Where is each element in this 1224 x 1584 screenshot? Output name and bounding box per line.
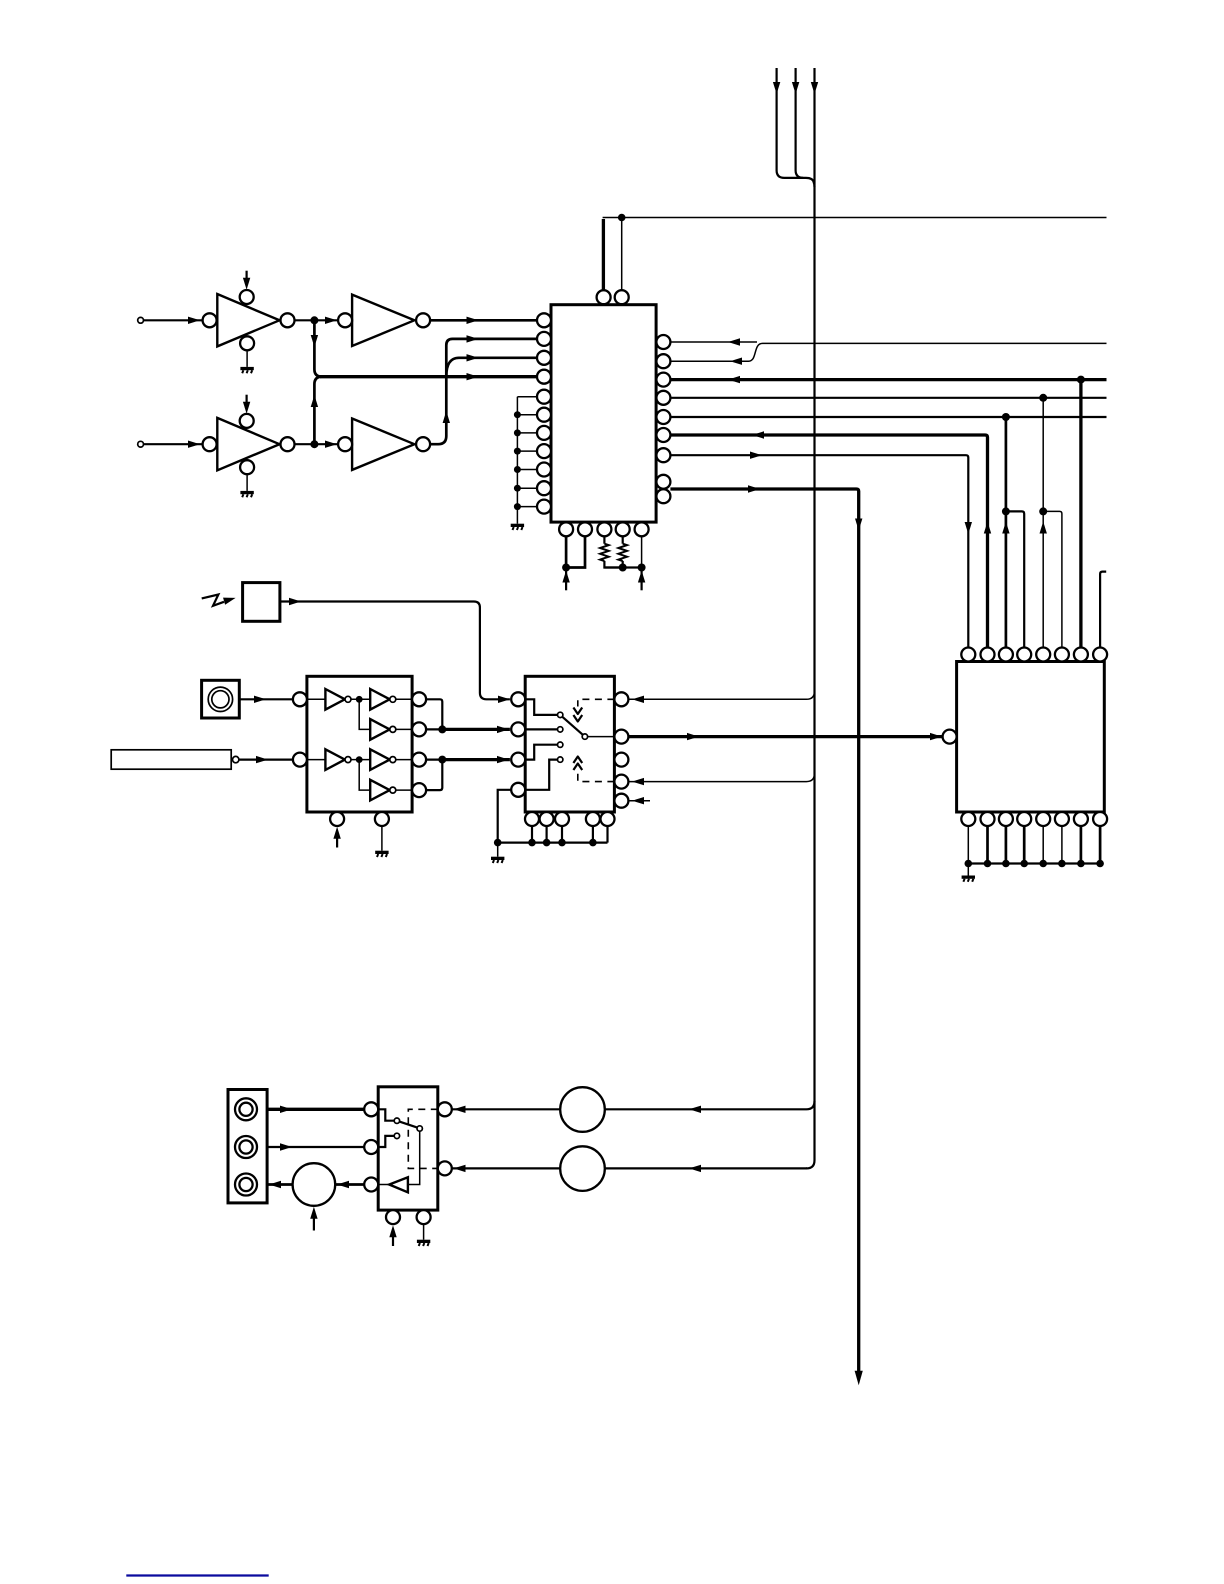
node: pin5 power junction bbox=[638, 564, 646, 572]
node: A3 output junction bbox=[310, 440, 318, 448]
node: U2 ground bus junctions bbox=[965, 860, 1104, 868]
node: row3 junction bbox=[1077, 376, 1085, 384]
wire: U1 right row1 bbox=[670, 338, 757, 345]
wire: U4 output to IC U2 bbox=[628, 733, 942, 740]
amp A5 left pointing bbox=[378, 1177, 408, 1192]
wire: A1 output to amp A2 with junction bbox=[295, 317, 339, 324]
IC U1 bottom pins bbox=[559, 522, 649, 536]
IC U2 bottom pins bbox=[961, 812, 1107, 826]
dashed control link upper bbox=[573, 699, 614, 721]
coil T1 bbox=[560, 1087, 605, 1132]
wire: U3 outputs pair B join bbox=[426, 760, 442, 791]
connector P2 flat cable bbox=[111, 750, 239, 769]
wire: row4 feed down to U2 pin5 and branch pin6 bbox=[1040, 398, 1062, 648]
wire: U5 power pin arrow bbox=[389, 1225, 396, 1246]
remote sensor wave symbol bbox=[202, 594, 237, 605]
IC U1 right pins bbox=[656, 335, 670, 503]
IC U3 bottom pins bbox=[330, 812, 389, 826]
input terminal CH2 bbox=[138, 441, 144, 447]
wire: branch from riser to IC1 pin3 bbox=[446, 354, 537, 376]
IC U1 top pins bbox=[597, 290, 629, 304]
remote sensor box bbox=[243, 583, 280, 622]
wire: sensor output to switch box U4 bbox=[280, 598, 510, 703]
IC U4 left pins bbox=[511, 692, 525, 797]
wire: control arrow into A3 top pin bbox=[243, 395, 250, 414]
IC U2 driver box bbox=[957, 662, 1105, 813]
node: resistor junction bbox=[619, 564, 627, 572]
wire: S1 common to output pin bbox=[588, 736, 615, 738]
resistor R1 bbox=[600, 536, 623, 567]
wire: pair B to switch U4 bbox=[442, 756, 510, 763]
IC U3 inverter array box bbox=[307, 676, 412, 812]
buffer amp A3 bbox=[203, 414, 295, 474]
IC U2 left pin bbox=[943, 730, 957, 744]
wire: main vertical bus line from top bbox=[806, 68, 818, 1168]
IC U4 bottom pins bbox=[525, 812, 615, 826]
node: pin1 power junction bbox=[562, 564, 570, 572]
wire: J1 ring to amp U5 bbox=[267, 1143, 364, 1150]
ground below A1 bbox=[240, 350, 253, 373]
IC U5 mute amp box bbox=[378, 1087, 438, 1210]
coil T2 bbox=[560, 1146, 605, 1191]
IC U3 left pins bbox=[293, 692, 307, 766]
wire: U1 row7 to IC U2 pin1 bbox=[670, 452, 972, 648]
IC U4 function switch box bbox=[525, 676, 614, 812]
headphone jack block J1 bbox=[228, 1090, 267, 1203]
inverter U3E bbox=[370, 749, 412, 770]
input terminal CH1 bbox=[138, 317, 144, 323]
IC U1 left pins bbox=[537, 313, 551, 513]
wire: U3 power pin arrow bbox=[333, 827, 340, 848]
amp A2 bbox=[338, 295, 430, 346]
wire: S2 common to amp input bbox=[408, 1131, 420, 1184]
node: ground bus junctions bbox=[514, 411, 521, 510]
inverter U3C bbox=[359, 699, 412, 739]
inverter U3A bbox=[307, 689, 370, 710]
wire: U4 pin R4 to main bus bbox=[628, 773, 814, 785]
wire: horizontal net to IC1 top pins bbox=[603, 218, 1107, 291]
switch S1 arm bbox=[562, 717, 583, 735]
wire: U1 right row4 bbox=[670, 397, 1106, 399]
dashed control link lower bbox=[573, 757, 614, 782]
IC U3 right pins bbox=[412, 692, 426, 797]
node: U3A output junction bbox=[356, 696, 363, 703]
ground below A3 bbox=[240, 474, 253, 497]
IC U5 right pins bbox=[438, 1102, 452, 1175]
wire: A3 output to amp A4 with junction bbox=[295, 441, 339, 448]
wire: supply line 1 entering from top with down arrow bbox=[773, 68, 806, 178]
wire: A2 output to IC1 pin1 bbox=[430, 317, 537, 324]
node: branch junction pin3 bbox=[1002, 507, 1010, 515]
ground below U1 left bus bbox=[511, 524, 524, 530]
node: ground bus junctions U4 bbox=[494, 839, 597, 847]
node: branch junction pin5 bbox=[1039, 507, 1047, 515]
wire: U5 to motor M1 bbox=[335, 1181, 364, 1188]
wire: U3 outputs pair A join bbox=[426, 699, 442, 729]
ground below U5 bbox=[417, 1224, 430, 1246]
node: pair B junction bbox=[438, 756, 446, 764]
amp A4 bbox=[338, 419, 430, 470]
wire: U1 row8 long feed down the page bbox=[670, 485, 862, 1385]
wire: junction down to thick net (CH1 direct) bbox=[311, 322, 322, 377]
wire: A4 output riser to IC1 pin2 bbox=[430, 335, 537, 444]
wire: bus line with jog to U1 row2 bbox=[670, 343, 1106, 365]
switch S2 inside U5 bbox=[378, 1109, 422, 1147]
wire: CH2 input to buffer A3 bbox=[144, 441, 203, 448]
wire: thick net to IC1 pin4 bbox=[320, 373, 537, 380]
ground below U3 bbox=[375, 826, 388, 857]
wire: row3 feed down to U2 pin7 bbox=[1079, 380, 1082, 648]
wire: U1 right row5 bbox=[670, 416, 1106, 418]
wire: U4 pin L4 to ground bus bbox=[498, 790, 512, 843]
wire: P2 to inverter box U3 bbox=[239, 756, 293, 763]
ground below U4 bbox=[491, 843, 504, 863]
node: A1 output junction bbox=[310, 316, 318, 324]
node: junction on top net bbox=[618, 214, 626, 222]
wire: U1 bottom pin1 power bbox=[562, 536, 569, 590]
buffer amp A1 bbox=[203, 290, 295, 350]
IC U4 right pins bbox=[614, 692, 628, 807]
wire: U4 pin R1 to main bus bbox=[628, 691, 814, 703]
IC U5 bottom pins bbox=[386, 1210, 431, 1224]
wire: U1 right row3 thick bbox=[670, 376, 1106, 383]
inverter U3B bbox=[370, 689, 412, 710]
motor M1 bbox=[293, 1163, 336, 1206]
inverter U3F bbox=[359, 760, 412, 801]
node: pair A junction bbox=[438, 725, 446, 733]
wire: row5 feed down to U2 pin3 and branch pin4 bbox=[1002, 417, 1024, 648]
connector P1 round jack bbox=[202, 680, 240, 718]
wire: supply line 2 entering from top with down arrow bbox=[792, 68, 803, 178]
wire: P1 to inverter box U3 bbox=[239, 696, 293, 703]
node: row5 junction bbox=[1002, 413, 1010, 421]
wire: M1 to J1 sleeve bbox=[267, 1181, 293, 1188]
wire: M1 power arrow bbox=[310, 1207, 317, 1231]
switch S1 contacts bbox=[525, 699, 587, 790]
wire: U1 bottom pin5 power bbox=[604, 536, 645, 590]
wire: pair A to switch U4 bbox=[442, 726, 510, 733]
wire: CH1 input to buffer A1 bbox=[144, 317, 203, 324]
IC U2 top pins bbox=[961, 648, 1107, 662]
node: row4 junction bbox=[1039, 394, 1047, 402]
wire: U2 pin8 stub bbox=[1100, 572, 1106, 648]
resistor R2 bbox=[618, 536, 627, 567]
dashed control link in U5 bbox=[408, 1109, 438, 1168]
hyperlink underline mark bbox=[126, 1574, 268, 1576]
wire: U2 bottom pins to ground bus bbox=[968, 826, 1100, 864]
wire: U1 row6 to IC U2 pin2 bbox=[670, 431, 991, 647]
wire: U4 bottom pins to ground bus bbox=[498, 826, 608, 843]
node: U3D output junction bbox=[356, 756, 363, 763]
wire: U5 out1 through T1 to main bus bbox=[452, 1101, 815, 1113]
wire: U1 left ground bus bbox=[517, 397, 537, 524]
ground below U2 bbox=[962, 864, 975, 882]
IC U5 left pins bbox=[364, 1102, 378, 1191]
IC U1 main processor bbox=[551, 305, 656, 522]
wire: U1 bottom pin2 link bbox=[566, 536, 585, 567]
wire: control arrow into A1 top pin bbox=[243, 271, 250, 290]
inverter U3D bbox=[307, 749, 370, 770]
wire: junction up to thick net (CH2 direct) bbox=[311, 377, 322, 443]
wire: J1 tip to amp U5 bbox=[267, 1106, 364, 1113]
wire: U5 out2 through T2 to main bus bbox=[452, 1165, 807, 1172]
wire: U4 pin R5 stub bbox=[628, 797, 650, 804]
